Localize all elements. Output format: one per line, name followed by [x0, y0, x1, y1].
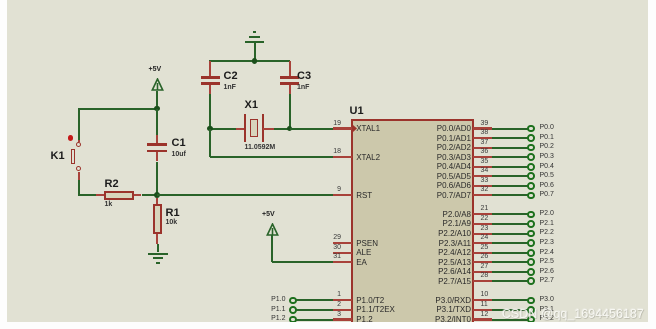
wire P2.7 to terminal [492, 280, 529, 282]
pin name P0.7/AD7 [400, 191, 471, 200]
terminal label P0.7 [540, 191, 554, 199]
pin stub P2.2/A10 (pin 23) [473, 233, 492, 235]
capacitor C2 [0, 0, 1, 1]
pin name P2.7/A15 [400, 277, 471, 286]
pin name P2.5/A13 [400, 258, 471, 267]
pin name ALE [356, 248, 371, 257]
terminal label P2.0 [540, 210, 554, 218]
terminal label P1.1 [255, 306, 286, 314]
watermark [502, 308, 644, 321]
wire K1 to R2 [78, 194, 96, 196]
XTAL1 clock arrow [353, 125, 357, 132]
pin name PSEN [356, 239, 378, 248]
label R1 [166, 207, 180, 219]
label X1 [245, 99, 258, 111]
wire C2-bottom to node A [209, 94, 211, 129]
wire P0.0 to terminal [492, 128, 529, 130]
node A junction [207, 126, 213, 132]
wire K1-top to +5V rail [78, 108, 158, 110]
pin stub P3.1/TXD (pin 11) [473, 309, 492, 311]
pin name P3.0/RXD [400, 296, 471, 305]
white margin right [648, 0, 656, 329]
wire P3.0 to terminal [492, 299, 529, 301]
capacitor C3 [0, 0, 1, 1]
terminal P2.2 [527, 230, 535, 238]
wire P3.2 to terminal [492, 319, 529, 321]
pin number 11 [481, 301, 488, 309]
pin name P2.0/A8 [400, 210, 471, 219]
wire P2.5 to terminal [492, 261, 529, 263]
wire P3.1 to terminal [492, 309, 529, 311]
pin name P2.6/A14 [400, 267, 471, 276]
terminal P2.6 [527, 268, 535, 276]
pin name P2.2/A10 [400, 229, 471, 238]
pin stub P1.0/T2 (pin 1) [333, 299, 353, 301]
terminal P1.1 [289, 306, 297, 314]
wire C3-bottom to node B [289, 94, 291, 129]
pin stub P0.5/AD5 (pin 34) [473, 175, 492, 177]
pin name P2.4/A12 [400, 248, 471, 257]
terminal label P2.7 [540, 277, 554, 285]
pin number 26 [481, 253, 489, 261]
label C1 [172, 137, 186, 149]
terminal P2.5 [527, 258, 535, 266]
wire R2 to RST node [142, 194, 158, 196]
terminal P2.7 [527, 277, 535, 285]
terminal label P0.6 [540, 182, 554, 190]
wire to EA pin [272, 261, 333, 263]
pin number 22 [481, 215, 489, 223]
label C2 [224, 70, 238, 82]
wire P2.6 to terminal [492, 271, 529, 273]
wire node A down (XTAL2 net) [209, 129, 211, 158]
label R2 [105, 178, 119, 190]
terminal label P2.6 [540, 268, 554, 276]
pin stub P2.0/A8 (pin 21) [473, 213, 492, 215]
terminal label P0.5 [540, 172, 554, 180]
wire P0.4 to terminal [492, 166, 529, 168]
terminal label P0.3 [540, 153, 554, 161]
pin number 39 [481, 120, 489, 128]
terminal label P2.3 [540, 239, 554, 247]
power +5V label (EA) [262, 211, 275, 219]
power +5V label (left) [149, 66, 162, 74]
terminal P0.0 [527, 125, 535, 133]
pin name P2.1/A9 [400, 219, 471, 228]
ground (top, above C2/C3) [0, 0, 1, 1]
pin stub P2.4/A12 (pin 25) [473, 252, 492, 254]
label K1 [51, 150, 65, 162]
pin stub RST (pin 9) [333, 194, 353, 196]
wire P2.3 to terminal [492, 242, 529, 244]
terminal P0.7 [527, 192, 535, 200]
pin name P0.3/AD3 [400, 153, 471, 162]
pin number 27 [481, 263, 489, 271]
wire RST node to chip RST pin [157, 194, 333, 196]
pin stub P2.7/A15 (pin 28) [473, 280, 492, 282]
terminal P2.4 [527, 249, 535, 257]
terminal label P0.1 [540, 134, 554, 142]
junction RST node [154, 192, 160, 198]
pin number 32 [481, 186, 489, 194]
pin stub P0.4/AD4 (pin 35) [473, 166, 492, 168]
wire R1 to ground [157, 244, 159, 252]
pin number 37 [481, 139, 489, 147]
pin name P1.2 [356, 315, 372, 324]
pin number 25 [481, 244, 489, 252]
terminal P2.3 [527, 239, 535, 247]
pin name P0.0/AD0 [400, 124, 471, 133]
wire P2.2 to terminal [492, 233, 529, 235]
pin stub EA (pin 31) [333, 261, 353, 263]
terminal P0.5 [527, 172, 535, 180]
terminal P0.3 [527, 153, 535, 161]
pin number 33 [481, 177, 489, 185]
wire K1-bottom down [78, 180, 80, 196]
pin number 12 [481, 311, 489, 319]
terminal label P2.2 [540, 229, 554, 237]
resistor R1 [0, 0, 1, 1]
wire P2.1 to terminal [492, 223, 529, 225]
terminal label P0.2 [540, 143, 554, 151]
wire P0.5 to terminal [492, 175, 529, 177]
node B junction [287, 126, 293, 132]
power +5V arrow (EA) [266, 223, 279, 236]
pin name EA [356, 258, 367, 267]
terminal label P1.2 [255, 315, 286, 323]
terminal P0.4 [527, 163, 535, 171]
terminal P0.1 [527, 134, 535, 142]
pin stub P0.3/AD3 (pin 36) [473, 156, 492, 158]
wire P2.0 to terminal [492, 213, 529, 215]
wire C1-bottom to RST node [156, 162, 158, 196]
white margin left [0, 0, 7, 329]
wire to XTAL2 pin [210, 156, 333, 158]
pin stub XTAL2 (pin 18) [333, 156, 353, 158]
wire P1.1 terminal to chip [296, 309, 333, 311]
pin name P3.1/TXD [400, 305, 471, 314]
pin number 29 [320, 234, 341, 242]
pin stub P3.0/RXD (pin 10) [473, 299, 492, 301]
pin stub P0.1/AD1 (pin 38) [473, 137, 492, 139]
wire node A to X1 left [210, 128, 235, 130]
value C1 10uf [172, 151, 186, 159]
terminal label P2.1 [540, 220, 554, 228]
terminal label P3.1 [540, 306, 554, 314]
pin number 10 [481, 291, 489, 299]
pin name P0.2/AD2 [400, 143, 471, 152]
pin number 9 [320, 186, 341, 194]
wire P0.6 to terminal [492, 185, 529, 187]
pin stub XTAL1 (pin 19) [333, 127, 353, 129]
pin number 38 [481, 129, 489, 137]
terminal label P2.4 [540, 249, 554, 257]
pin name P0.4/AD4 [400, 162, 471, 171]
terminal label P2.5 [540, 258, 554, 266]
pin stub P2.5/A13 (pin 26) [473, 261, 492, 263]
pin stub P0.2/AD2 (pin 37) [473, 147, 492, 149]
wire P0.2 to terminal [492, 147, 529, 149]
pin stub P0.6/AD6 (pin 33) [473, 185, 492, 187]
wire P2.4 to terminal [492, 252, 529, 254]
pin number 1 [320, 291, 341, 299]
terminal P0.2 [527, 144, 535, 152]
value R2 1k [105, 201, 113, 209]
value R1 10k [166, 219, 178, 227]
wire P1.0 terminal to chip [296, 299, 333, 301]
pin stub P0.0/AD0 (pin 39) [473, 127, 492, 129]
pin name P3.2/INT0 [400, 315, 471, 324]
power +5V arrow (left) [151, 78, 164, 91]
label U1 [350, 105, 364, 117]
pin stub PSEN (pin 29) [333, 242, 353, 244]
pushbutton K1 [0, 0, 1, 1]
pin name P0.1/AD1 [400, 134, 471, 143]
terminal P2.1 [527, 220, 535, 228]
pin number 2 [320, 301, 341, 309]
pin name XTAL1 [356, 124, 380, 133]
terminal P0.6 [527, 182, 535, 190]
pin stub P2.1/A9 (pin 22) [473, 223, 492, 225]
capacitor C1 [0, 0, 1, 1]
pin number 35 [481, 158, 489, 166]
wire X1 right to node B [274, 128, 290, 130]
terminal label P0.4 [540, 163, 554, 171]
junction +5V rail [154, 106, 160, 112]
pin number 21 [481, 205, 489, 213]
terminal P3.1 [527, 306, 535, 314]
terminal P1.0 [289, 297, 297, 305]
pin stub ALE (pin 30) [333, 252, 353, 254]
value X1 11.0592M [245, 144, 276, 152]
wire P0.1 to terminal [492, 137, 529, 139]
white margin bottom [0, 322, 656, 329]
pin number 34 [481, 167, 489, 175]
pin number 30 [320, 244, 341, 252]
label C3 [297, 70, 311, 82]
terminal P2.0 [527, 211, 535, 219]
terminal label P0.0 [540, 124, 554, 132]
terminal P3.2 [527, 316, 535, 324]
ground (under R1) [0, 0, 1, 1]
pin number 31 [320, 253, 341, 261]
wire P0.3 to terminal [492, 156, 529, 158]
resistor R2 [0, 0, 1, 1]
wire node B to XTAL1 pin [290, 128, 333, 130]
terminal P3.0 [527, 297, 535, 305]
wire P0.7 to terminal [492, 194, 529, 196]
pin name XTAL2 [356, 153, 380, 162]
terminal label P1.0 [255, 296, 286, 304]
wire +5V to junction [156, 91, 158, 109]
pin stub P1.2 (pin 3) [333, 318, 353, 320]
pin number 3 [320, 311, 341, 319]
wire C2-top to C3-top (y=61) [209, 60, 290, 62]
pin stub P1.1/T2EX (pin 2) [333, 309, 353, 311]
terminal label P3.2 [540, 315, 554, 323]
pin name P1.1/T2EX [356, 305, 395, 314]
pin number 19 [320, 120, 341, 128]
pin name RST [356, 191, 372, 200]
pin number 23 [481, 225, 489, 233]
value C2 1nF [224, 84, 236, 92]
pin name P0.6/AD6 [400, 181, 471, 190]
junction ground/top rail [252, 58, 258, 64]
op-amp U1 body (AT89C51 MCU) [351, 119, 475, 329]
wire junction down to C1 [156, 109, 158, 136]
terminal label P3.0 [540, 296, 554, 304]
value C3 1nF [297, 84, 309, 92]
wire P1.2 terminal to chip [296, 319, 333, 321]
pin stub P2.6/A14 (pin 27) [473, 271, 492, 273]
pin name P2.3/A11 [400, 239, 471, 248]
pin number 36 [481, 148, 489, 156]
wire +5V down to EA row [271, 235, 273, 262]
pin name P0.5/AD5 [400, 172, 471, 181]
pin name P1.0/T2 [356, 296, 384, 305]
pin stub P0.7/AD7 (pin 32) [473, 194, 492, 196]
pin number 24 [481, 234, 489, 242]
pin stub P3.2/INT0 (pin 12) [473, 318, 492, 320]
pin number 28 [481, 272, 489, 280]
terminal P1.2 [289, 316, 297, 324]
pin stub P2.3/A11 (pin 24) [473, 242, 492, 244]
crystal X1 [0, 0, 1, 1]
pin number 18 [320, 148, 341, 156]
